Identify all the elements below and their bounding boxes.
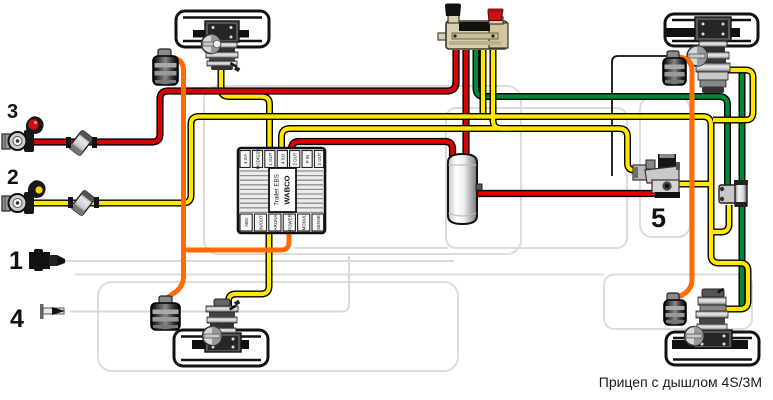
red line: park valve to reservoir — [462, 50, 469, 154]
orange suspension line right: bellows to bellows — [675, 57, 692, 299]
yellow branch to top-right chamber — [713, 70, 753, 120]
wheel top-left — [176, 11, 269, 47]
svg-text:MODUL: MODUL — [302, 214, 307, 230]
yellow line ECU to valve 5 — [282, 129, 643, 171]
svg-text:WABCO: WABCO — [283, 175, 292, 204]
brake chamber bottom-right (spring brake) — [685, 288, 733, 348]
yellow stub from green component — [712, 205, 729, 232]
wheel bottom-left — [174, 330, 268, 366]
svg-text:2 OUT: 2 OUT — [293, 152, 298, 165]
svg-text:P IN: P IN — [305, 155, 310, 163]
inline valve on green line — [719, 180, 748, 207]
svg-text:3: 3 — [7, 101, 18, 123]
test connector 4 — [40, 304, 65, 319]
svg-text:4: 4 — [10, 305, 24, 333]
filter collars on yellow line — [68, 197, 73, 208]
electric line from connector 4 — [70, 256, 349, 312]
sensor cable to top-right wheel — [612, 56, 667, 176]
air reservoir — [448, 154, 482, 224]
green line: park valve to rear axle — [476, 50, 728, 186]
chassis frame outline A (center) — [204, 86, 521, 254]
red line: reservoir to valve 5 — [478, 190, 655, 197]
air bellows top-left — [153, 49, 178, 85]
yellow line ECU to bottom-left chamber — [229, 232, 270, 306]
air bellows top-right — [663, 51, 686, 85]
wheel top-right — [665, 14, 758, 46]
orange suspension line left: bellows to ECU and rear bellows — [167, 57, 289, 298]
svg-text:Trailer EBS: Trailer EBS — [274, 174, 281, 205]
svg-text:5: 5 — [651, 203, 666, 233]
svg-text:4 GA: 4 GA — [243, 154, 248, 164]
filter collars on red line — [66, 137, 71, 148]
air bellows bottom-right — [664, 293, 686, 325]
yellow line top-left chamber to ECU (under red trunk) — [221, 64, 270, 149]
svg-text:SENSE: SENSE — [316, 215, 321, 230]
coupling head 2 (yellow handle) — [2, 180, 46, 214]
yellow control trunk: coupling 2 across to rear — [34, 117, 748, 310]
brake chamber bottom-left — [203, 299, 242, 352]
red supply line: coupling 3 to park valve — [34, 50, 456, 142]
svg-text:MOD/GSV: MOD/GSV — [256, 149, 261, 170]
EBS ECU modulator — [238, 148, 325, 233]
svg-text:POWER: POWER — [287, 214, 292, 231]
red line: reservoir to ECU — [292, 142, 453, 157]
wheel bottom-right — [666, 332, 759, 365]
electric line from ECU — [294, 247, 448, 249]
line filter on red line — [69, 130, 94, 156]
svg-text:4 SO: 4 SO — [280, 153, 285, 164]
valve 5 (third modulator) — [633, 154, 680, 198]
chassis frame outline D (center right) — [446, 108, 627, 248]
yellow riser park valve port to trunk — [480, 50, 487, 113]
svg-text:ARONA: ARONA — [273, 215, 278, 231]
yellow stub valve 5 right port — [676, 181, 711, 188]
svg-text:3 OUT: 3 OUT — [317, 152, 322, 165]
brake chamber top-left — [202, 21, 241, 72]
svg-text:ABS: ABS — [244, 218, 249, 227]
green line: top-right chamber down — [739, 70, 746, 306]
air bellows bottom-left — [151, 296, 180, 330]
electrical connector 1 — [29, 249, 65, 271]
green line cores — [476, 50, 742, 306]
svg-text:2: 2 — [7, 166, 19, 189]
coupling head 3 (red handle) — [2, 116, 44, 152]
chassis frame outline C (right, around orange) — [640, 97, 690, 237]
svg-text:1: 1 — [9, 247, 23, 275]
long chassis line bottom — [75, 274, 604, 276]
yellow line cores — [34, 50, 753, 309]
svg-text:IN/OUT: IN/OUT — [259, 215, 264, 230]
yellow riser park valve port 4 — [493, 50, 510, 129]
red line cores — [34, 50, 655, 194]
svg-text:Прицеп с дышлом 4S/3M: Прицеп с дышлом 4S/3M — [599, 374, 762, 390]
chassis frame outline E (bottom right) — [604, 275, 752, 330]
line filter on yellow line — [71, 190, 96, 216]
chassis frame outline B (bottom left) — [98, 282, 458, 371]
electric line from connector 1 — [62, 260, 454, 262]
svg-text:1 OUT: 1 OUT — [268, 152, 273, 165]
park/shunt valve with coupling heads (top center) — [438, 4, 508, 50]
brake chamber top-right (spring brake) — [687, 17, 731, 93]
